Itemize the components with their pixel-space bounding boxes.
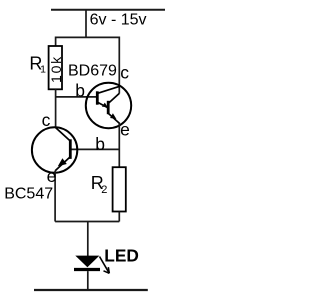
- svg-text:c: c: [120, 62, 129, 82]
- svg-text:e: e: [120, 120, 130, 140]
- svg-text:BD679: BD679: [68, 63, 117, 80]
- svg-text:LED: LED: [104, 245, 139, 265]
- svg-text:2: 2: [101, 184, 107, 196]
- svg-text:BC547: BC547: [4, 186, 53, 203]
- svg-text:e: e: [47, 166, 57, 186]
- svg-text:b: b: [75, 81, 85, 101]
- svg-text:6v - 15v: 6v - 15v: [90, 12, 147, 29]
- svg-text:1: 1: [40, 64, 46, 76]
- svg-text:b: b: [95, 134, 105, 154]
- svg-text:c: c: [42, 110, 51, 130]
- svg-text:10k: 10k: [48, 55, 64, 83]
